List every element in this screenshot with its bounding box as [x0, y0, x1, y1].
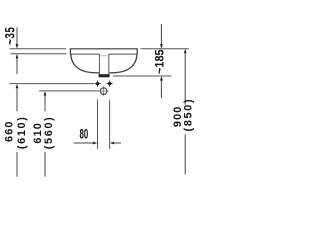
svg-text:(610): (610)	[16, 115, 28, 149]
svg-text:80: 80	[80, 127, 89, 142]
svg-text:~185: ~185	[154, 49, 166, 74]
svg-text:~35: ~35	[2, 27, 18, 45]
svg-text:660: 660	[3, 120, 15, 142]
svg-text:(560): (560)	[43, 116, 55, 150]
svg-text:(850): (850)	[182, 98, 194, 132]
